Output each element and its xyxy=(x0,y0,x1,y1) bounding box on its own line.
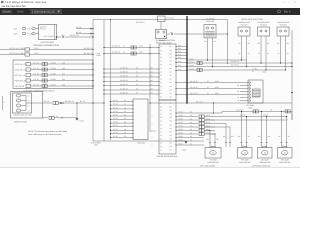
svg-text:BK 20: BK 20 xyxy=(76,31,81,34)
svg-text:LOCK MOTOR: LOCK MOTOR xyxy=(279,161,291,164)
svg-text:19: 19 xyxy=(124,131,126,134)
svg-text:VT 22: VT 22 xyxy=(113,99,118,102)
svg-text:Master: Master xyxy=(3,10,12,14)
svg-text:VT 22: VT 22 xyxy=(113,121,118,124)
svg-text:PWR WIN 25: PWR WIN 25 xyxy=(15,79,26,82)
svg-text:BK-GN 20: BK-GN 20 xyxy=(84,47,92,50)
svg-text:C501: C501 xyxy=(215,80,219,83)
svg-text:BK 18: BK 18 xyxy=(44,100,49,103)
svg-text:DB-LG 20: DB-LG 20 xyxy=(190,92,198,95)
svg-text:VT 22: VT 22 xyxy=(113,131,118,134)
svg-text:DDM C2a: DDM C2a xyxy=(137,142,144,145)
svg-text:GY 18: GY 18 xyxy=(34,78,39,81)
svg-text:C312: C312 xyxy=(139,45,143,48)
svg-text:S40: S40 xyxy=(62,67,65,70)
svg-text:32: 32 xyxy=(136,75,138,78)
svg-text:Grids: Grids xyxy=(17,10,24,14)
svg-text:C501: C501 xyxy=(215,86,219,89)
svg-text:GY-YE: GY-YE xyxy=(240,114,246,117)
svg-text:File Edit View Wind Tab: File Edit View Wind Tab xyxy=(2,5,27,8)
svg-text:VT 22: VT 22 xyxy=(113,135,118,138)
svg-text:ACC DLY 10: ACC DLY 10 xyxy=(15,74,26,77)
svg-text:1 Door locks 4.1.19: 1 Door locks 4.1.19 xyxy=(32,11,55,14)
svg-text:4-3.0L Wiring Lab PROJ15 - sta: 4-3.0L Wiring Lab PROJ15 - stack view xyxy=(5,1,47,4)
svg-text:DB-LG 20: DB-LG 20 xyxy=(190,80,198,83)
svg-text:22: 22 xyxy=(252,70,254,73)
svg-text:C2280: C2280 xyxy=(51,83,56,86)
svg-text:GY-RD 22: GY-RD 22 xyxy=(120,88,128,91)
svg-text:LOCK MOTOR: LOCK MOTOR xyxy=(207,161,219,164)
svg-text:S40: S40 xyxy=(62,72,65,75)
svg-text:LOCK SW: LOCK SW xyxy=(206,20,215,23)
svg-text:GY-RD 22: GY-RD 22 xyxy=(120,83,128,86)
svg-text:DR LCK 20: DR LCK 20 xyxy=(15,85,25,88)
svg-text:GY-RD 22: GY-RD 22 xyxy=(120,75,128,78)
svg-text:C2128: C2128 xyxy=(263,114,268,117)
svg-text:C2280: C2280 xyxy=(51,61,56,64)
svg-text:20: 20 xyxy=(124,135,126,138)
svg-text:RD-GN 18: RD-GN 18 xyxy=(136,21,144,24)
svg-text:LOCK MOTOR: LOCK MOTOR xyxy=(259,161,271,164)
svg-text:VT 22: VT 22 xyxy=(113,114,118,117)
svg-text:DOOR LOCK CYL SW: DOOR LOCK CYL SW xyxy=(14,113,32,116)
svg-text:VT 22: VT 22 xyxy=(113,103,118,106)
svg-text:C270: C270 xyxy=(34,52,38,55)
svg-text:13: 13 xyxy=(124,110,126,113)
svg-text:C501: C501 xyxy=(215,92,219,95)
svg-text:VT 22: VT 22 xyxy=(113,128,118,131)
svg-text:OG-BK 22: OG-BK 22 xyxy=(231,60,239,63)
svg-text:BOX (SJB): BOX (SJB) xyxy=(163,42,172,45)
svg-text:BK-GN 20: BK-GN 20 xyxy=(84,52,92,55)
svg-text:UNLK RLY 15: UNLK RLY 15 xyxy=(15,68,27,71)
svg-text:LB-BK 20: LB-BK 20 xyxy=(236,109,243,112)
svg-text:57: 57 xyxy=(207,86,209,89)
svg-text:14: 14 xyxy=(123,45,125,48)
svg-text:VT 22: VT 22 xyxy=(113,117,118,120)
svg-text:S40: S40 xyxy=(62,78,65,81)
svg-text:GY 18: GY 18 xyxy=(34,61,39,64)
svg-text:BATT SAVER: BATT SAVER xyxy=(44,35,55,38)
svg-text:57: 57 xyxy=(207,80,209,83)
svg-text:LEFT SIDE DOORS: LEFT SIDE DOORS xyxy=(200,164,216,167)
svg-text:GY-RD 22: GY-RD 22 xyxy=(120,71,128,74)
svg-text:✕: ✕ xyxy=(294,1,296,4)
svg-text:GY 18: GY 18 xyxy=(34,72,39,75)
svg-text:18: 18 xyxy=(124,128,126,131)
svg-text:S40: S40 xyxy=(62,83,65,86)
svg-text:BK-WH 20: BK-WH 20 xyxy=(65,100,74,103)
svg-text:LOCK MOTOR: LOCK MOTOR xyxy=(239,161,251,164)
svg-text:14: 14 xyxy=(124,114,126,117)
svg-text:34: 34 xyxy=(136,83,138,86)
svg-text:BK-YE 18: BK-YE 18 xyxy=(196,100,203,103)
svg-text:15: 15 xyxy=(124,117,126,120)
svg-text:GY-RD 22: GY-RD 22 xyxy=(120,92,128,95)
svg-text:GY 18: GY 18 xyxy=(34,67,39,70)
svg-text:11: 11 xyxy=(124,103,126,106)
svg-text:36: 36 xyxy=(136,92,138,95)
svg-text:C270: C270 xyxy=(34,47,38,50)
svg-text:VT 22: VT 22 xyxy=(113,106,118,109)
svg-text:10: 10 xyxy=(124,99,126,102)
svg-text:uses coded keys for all unlock: uses coded keys for all unlock functions… xyxy=(28,133,62,136)
svg-text:GROUND DISTRIBUTION: GROUND DISTRIBUTION xyxy=(33,44,59,47)
svg-text:35: 35 xyxy=(136,88,138,91)
svg-text:GY-YE 22: GY-YE 22 xyxy=(231,64,239,67)
svg-text:GY-OG: GY-OG xyxy=(252,67,258,70)
svg-text:GY-OG 22: GY-OG 22 xyxy=(112,45,120,48)
svg-text:VT 22: VT 22 xyxy=(113,124,118,127)
svg-text:BK 18: BK 18 xyxy=(80,100,85,103)
svg-text:C2280: C2280 xyxy=(51,67,56,70)
svg-text:LUGGAGE COMPARTMENT RELAY: LUGGAGE COMPARTMENT RELAY xyxy=(23,89,55,92)
svg-text:HOT AT ALL TIMES: HOT AT ALL TIMES xyxy=(9,47,26,50)
svg-text:RELAY: RELAY xyxy=(156,41,162,44)
svg-text:30: 30 xyxy=(136,67,138,70)
svg-text:DOOR LOCK SWITCHES: DOOR LOCK SWITCHES xyxy=(241,18,264,21)
svg-text:16: 16 xyxy=(124,121,126,124)
svg-text:JUNCTION BOX: JUNCTION BOX xyxy=(40,41,55,44)
svg-text:RD 18: RD 18 xyxy=(76,26,81,29)
svg-text:S40: S40 xyxy=(62,61,65,64)
svg-text:14: 14 xyxy=(123,51,125,54)
svg-text:FP SW: FP SW xyxy=(40,28,46,31)
svg-text:NOTE: The remote entry system: NOTE: The remote entry system on this mo… xyxy=(28,130,68,133)
svg-text:57: 57 xyxy=(207,92,209,95)
svg-text:SWITCH: SWITCH xyxy=(241,24,248,27)
svg-text:SWITCH: SWITCH xyxy=(260,24,267,27)
svg-text:BN-YE 22: BN-YE 22 xyxy=(70,34,78,37)
svg-text:17: 17 xyxy=(124,124,126,127)
svg-text:F2.30 15A: F2.30 15A xyxy=(167,17,176,20)
svg-text:Bar h: Bar h xyxy=(284,11,291,14)
svg-text:G301: G301 xyxy=(80,120,84,123)
svg-text:C2280: C2280 xyxy=(51,72,56,75)
svg-text:SWITCH: SWITCH xyxy=(280,24,287,27)
svg-text:C2280: C2280 xyxy=(51,78,56,81)
svg-text:GY 18: GY 18 xyxy=(34,83,39,86)
svg-text:LOCK RLY 30: LOCK RLY 30 xyxy=(15,63,27,66)
svg-text:G302: G302 xyxy=(182,149,186,152)
svg-text:33: 33 xyxy=(136,79,138,82)
svg-text:31: 31 xyxy=(136,71,138,74)
svg-text:GY-OG 22: GY-OG 22 xyxy=(112,51,120,54)
svg-text:C312: C312 xyxy=(139,51,143,54)
svg-text:18: 18 xyxy=(56,115,58,118)
svg-text:DRIVER DOOR: DRIVER DOOR xyxy=(14,120,27,123)
svg-text:GY-RD 22: GY-RD 22 xyxy=(120,79,128,82)
svg-text:18: 18 xyxy=(270,109,272,112)
svg-text:DB-LG 20: DB-LG 20 xyxy=(190,86,198,89)
svg-text:DRIVER DOOR MODULE: DRIVER DOOR MODULE xyxy=(157,155,179,158)
svg-text:HOT AT ALL TIMES: HOT AT ALL TIMES xyxy=(9,52,26,55)
svg-text:12: 12 xyxy=(124,106,126,109)
svg-text:VT 22: VT 22 xyxy=(113,110,118,113)
svg-text:GY-RD 22: GY-RD 22 xyxy=(120,67,128,70)
svg-text:C340: C340 xyxy=(262,71,266,74)
